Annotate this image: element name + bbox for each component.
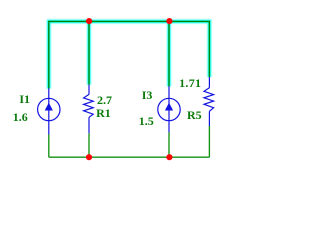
junction dot bottom-right	[166, 154, 172, 160]
label 1.6	[13, 111, 28, 123]
junction dot top-left	[86, 18, 92, 24]
label 1.71	[179, 77, 201, 89]
resistor R1 leads	[88, 85, 90, 134]
label 1.5	[139, 115, 154, 127]
current source I3 arrow	[165, 103, 173, 111]
label I1	[19, 93, 30, 105]
resistor R5 leads	[208, 77, 210, 126]
current source I3 lead wire	[168, 86, 170, 132]
wire: bottom rail and lower stubs (unselected net)	[49, 126, 210, 157]
resistor R5 zigzag	[204, 88, 214, 112]
label I3	[142, 89, 153, 101]
label 2.7	[97, 94, 112, 106]
current source I1 lead wire	[48, 88, 50, 134]
junction dot top-right	[166, 18, 172, 24]
label R1	[96, 107, 111, 119]
current source I1 circle	[38, 98, 60, 120]
resistor R1 zigzag	[84, 94, 94, 117]
wire: selected top net glow (cyan)	[49, 21, 210, 88]
current source I3 circle	[158, 98, 180, 120]
wire: selected top net glow (outer halo)	[49, 21, 210, 88]
label R5	[187, 109, 202, 121]
junction dot bottom-left	[86, 154, 92, 160]
current source I1 arrow	[45, 103, 53, 111]
wire: top rail + stubs, green core	[49, 21, 210, 88]
